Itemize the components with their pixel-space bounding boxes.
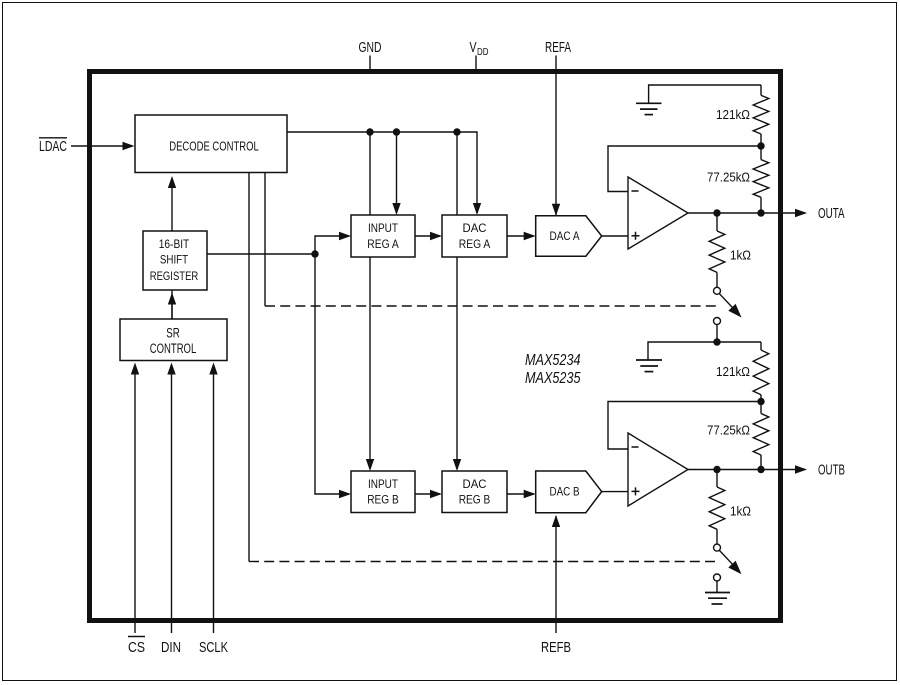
wire: dashed LDAC gate line to switch B (248, 173, 250, 562)
arrowhead shift register into decode control (168, 176, 176, 188)
junction node OUTB 1k tap (713, 466, 720, 473)
svg-text:REGISTER: REGISTER (150, 269, 199, 283)
arrowhead LDAC into decode control (123, 142, 135, 150)
arrowhead INPUT REG B into DAC REG B (430, 490, 442, 498)
resistor R4 121kOhm B (760, 342, 762, 350)
op-amp A (628, 177, 688, 249)
svg-text:1kΩ: 1kΩ (730, 247, 751, 262)
wire: DIN pin up to SR CONTROL (171, 374, 173, 633)
arrowhead bus into INPUT REG A (392, 203, 400, 215)
junction node 121k/77.25k B (757, 398, 764, 405)
DAC A converter pentagon (536, 216, 602, 256)
arrowhead node into INPUT REG B (339, 490, 351, 498)
wire: op amp B output OUTB (688, 469, 805, 471)
wire: DAC A output to op amp A plus input (602, 235, 628, 237)
arrowhead REFA into DAC A (552, 204, 560, 216)
svg-text:MAX5235: MAX5235 (525, 370, 581, 387)
arrowhead REFB into DAC B (552, 515, 560, 527)
switch A upper contact circle (714, 287, 721, 294)
svg-text:DECODE CONTROL: DECODE CONTROL (169, 139, 259, 154)
arrowhead node into INPUT REG A (339, 232, 351, 240)
arrowhead bus into DAC REG A (473, 203, 481, 215)
svg-text:OUTA: OUTA (818, 206, 845, 222)
wire: feedback A from resistor junction to op amp A minus (608, 146, 761, 192)
arrowhead DAC REG A into DAC A (524, 232, 536, 240)
junction node OUTA 77.25k tap (757, 209, 764, 216)
junction node on bus at x396 (393, 128, 400, 135)
svg-text:DIN: DIN (161, 640, 181, 656)
ground symbol A (636, 103, 662, 114)
block INPUT REG A (351, 215, 415, 257)
IC boundary thick border MAX5234/MAX5235 (90, 72, 781, 621)
svg-text:1kΩ: 1kΩ (730, 504, 751, 519)
wire: INPUT REG B to DAC REG B (415, 493, 440, 495)
DAC B converter pentagon (536, 471, 602, 513)
arrowhead OUTA (795, 209, 807, 217)
block DAC REG B (442, 471, 507, 513)
svg-text:SHIFT: SHIFT (160, 253, 189, 267)
arrowhead INPUT REG A into DAC REG A (430, 232, 442, 240)
svg-text:INPUT: INPUT (368, 221, 399, 235)
wire: SR control to shift register (171, 304, 173, 320)
ground symbol C below switch B (705, 593, 730, 605)
svg-text:V: V (470, 40, 477, 56)
svg-text:121kΩ: 121kΩ (716, 107, 750, 122)
switch B arm with arrowhead (719, 550, 741, 574)
svg-text:REFA: REFA (545, 40, 571, 56)
switch B lower contact circle (714, 574, 721, 581)
svg-text:REFB: REFB (541, 640, 571, 656)
arrowhead bus into DAC REG B (453, 459, 461, 471)
wire: shift register output to node (207, 253, 315, 255)
junction node switch A to ground rail (713, 338, 720, 345)
svg-text:SCLK: SCLK (199, 640, 228, 656)
svg-text:77.25kΩ: 77.25kΩ (707, 169, 750, 184)
junction node OUTA 1k tap (713, 209, 720, 216)
resistor R5 77.25kOhm B (760, 402, 762, 414)
resistor R2 77.25kOhm A (760, 146, 762, 160)
block INPUT REG B (351, 471, 415, 513)
svg-text:DD: DD (477, 47, 489, 58)
wire: bus drop through INPUT REG A to INPUT REG B (369, 132, 371, 469)
arrowhead CS into SR control (131, 363, 139, 375)
svg-text:REG A: REG A (459, 237, 491, 251)
svg-text:CS: CS (128, 640, 145, 656)
svg-text:DAC: DAC (463, 477, 487, 491)
resistor R3 1kOhm A (716, 213, 718, 231)
svg-text:OUTB: OUTB (818, 462, 845, 478)
svg-text:121kΩ: 121kΩ (716, 364, 750, 379)
arrowhead bus into INPUT REG B (366, 459, 374, 471)
ground symbol B (636, 360, 662, 372)
svg-text:REG B: REG B (459, 493, 491, 507)
svg-text:SR: SR (166, 326, 180, 341)
wire: dashed LDAC gate line to switch A (264, 173, 266, 307)
wire: ground B rail to 121k B top (648, 342, 761, 360)
junction node on bus at x370 (366, 128, 373, 135)
wire: op amp A output OUTA (688, 212, 805, 214)
svg-text:16-BIT: 16-BIT (159, 237, 190, 251)
wire: DAC B output to op amp B plus input (602, 491, 628, 493)
wire: REFB up into DAC B (555, 516, 557, 633)
wire: SCLK pin up to SR CONTROL (213, 374, 215, 633)
wire: node down into INPUT REG B (315, 254, 349, 494)
op-amp B (628, 433, 688, 506)
wire: CS pin up to SR CONTROL (134, 374, 136, 633)
wire: DAC REG A to DAC A (507, 235, 534, 237)
arrowhead DAC REG B into DAC B (524, 490, 536, 498)
switch A arm with arrowhead (719, 294, 741, 318)
svg-text:MAX5234: MAX5234 (525, 352, 581, 369)
svg-text:REG B: REG B (367, 493, 399, 507)
block SR CONTROL (120, 319, 227, 361)
svg-text:GND: GND (359, 40, 382, 56)
wire: REFA line down to DAC A (555, 56, 557, 216)
svg-text:CONTROL: CONTROL (150, 341, 197, 356)
wire: VDD pin stub (475, 56, 477, 72)
svg-text:DAC B: DAC B (550, 487, 580, 499)
part name MAX5234 MAX5235 (525, 352, 581, 387)
block DECODE CONTROL (135, 115, 287, 173)
wire: shift register to decode control (171, 187, 173, 319)
wire: DAC REG B to DAC B (507, 493, 534, 495)
junction node 121k/77.25k A (757, 142, 764, 149)
wire: bus drop through DAC REG A to DAC REG B (456, 132, 458, 469)
junction node on bus at x457 (453, 128, 460, 135)
svg-text:LDAC: LDAC (39, 139, 67, 155)
junction node shift register fanout (311, 250, 318, 257)
arrowhead DIN into SR control (167, 363, 175, 375)
svg-text:DAC A: DAC A (550, 231, 580, 243)
junction node OUTB 77.25k tap (757, 466, 764, 473)
wire: GND pin stub (369, 56, 371, 72)
arrowhead SCLK into SR control (209, 363, 217, 375)
switch A lower contact circle (714, 318, 721, 325)
wire: INPUT REG A to DAC REG A (415, 235, 440, 237)
block DAC REG A (442, 215, 507, 257)
wire: LDAC input to DECODE CONTROL (71, 145, 132, 147)
wire: feedback B from resistor junction to op amp B minus (608, 402, 761, 450)
arrowhead SR control into shift register (168, 293, 176, 305)
wire: switch B lower contact to ground C (716, 581, 718, 592)
resistor R1 121kOhm A (760, 85, 762, 95)
wire: bus drop to INPUT REG A (396, 132, 398, 213)
svg-text:INPUT: INPUT (368, 477, 399, 491)
block 16-BIT SHIFT REGISTER (143, 231, 207, 290)
arrowhead OUTB (795, 465, 807, 473)
switch B upper contact circle (714, 544, 721, 551)
wire: ground A to 121k A top (649, 85, 761, 103)
svg-text:REG A: REG A (367, 237, 399, 251)
resistor R6 1kOhm B (716, 470, 718, 488)
wire: node up into INPUT REG A (315, 236, 349, 254)
wire: DECODE CONTROL output bus to DAC REG A (287, 132, 477, 213)
svg-text:77.25kΩ: 77.25kΩ (707, 423, 750, 438)
wire: switch A lower contact to ground B rail (716, 325, 718, 343)
svg-text:DAC: DAC (463, 221, 487, 235)
